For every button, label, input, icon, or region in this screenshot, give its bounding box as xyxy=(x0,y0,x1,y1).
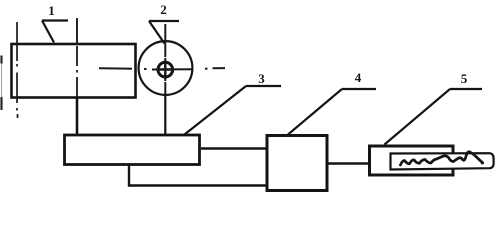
centerline right (x=77) above block 1 xyxy=(76,18,78,44)
hub cross centerlines xyxy=(157,61,174,80)
wire: block 3 to block 4 xyxy=(201,147,266,149)
leader line 2 xyxy=(149,21,179,44)
centerline left (x=17) xyxy=(16,22,19,118)
horizontal axis centerline (dash-dot through block 1 and wheel 2) xyxy=(99,68,225,69)
wheel 2 (pulley rim) xyxy=(139,41,193,95)
recorded trace (squiggle) xyxy=(400,152,483,166)
block 1 (motor body) xyxy=(12,44,136,98)
hub of wheel 2 xyxy=(158,62,173,77)
leader line 3 xyxy=(185,86,282,135)
svg-text:4: 4 xyxy=(355,70,362,85)
wire: shaft from block 1 down to block 3 xyxy=(76,97,79,135)
block 4 (amplifier) xyxy=(267,136,327,191)
vertical axis centerline of wheel 2 xyxy=(164,24,166,95)
leader line 5 xyxy=(385,89,483,145)
svg-text:1: 1 xyxy=(48,3,55,18)
leader line 1 xyxy=(42,21,68,43)
wire: block 3 bottom loop to block 4 xyxy=(129,164,266,186)
svg-text:5: 5 xyxy=(461,71,468,86)
chart strip of block 5 xyxy=(391,153,494,169)
scan mark at left page edge xyxy=(0,56,2,111)
block 3 (gearbox) xyxy=(65,135,200,165)
block 5 (recorder body) xyxy=(370,146,454,175)
svg-text:3: 3 xyxy=(258,71,265,86)
centerline right (x=77) inside block 1 xyxy=(76,46,78,97)
svg-text:2: 2 xyxy=(160,2,167,17)
wire: shaft from wheel 2 down to block 3 xyxy=(164,95,166,135)
leader line 4 xyxy=(288,89,376,135)
wire: block 4 to block 5 xyxy=(328,162,369,164)
